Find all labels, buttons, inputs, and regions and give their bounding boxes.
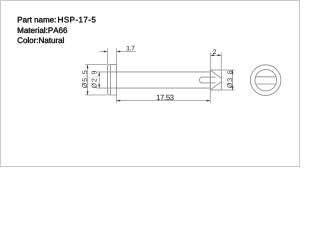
- arrow dim 17.53 left, points left: [117, 100, 121, 102]
- arrow dim 3.6 top, points up: [232, 70, 234, 74]
- arrow dim 2 right, points right: [218, 54, 222, 56]
- label dia 5.5: [82, 71, 87, 88]
- title: material: [18, 27, 67, 33]
- tip expansion slot: [199, 77, 215, 83]
- ext line tip front upward (dim 2): [220, 53, 222, 71]
- tip front face: [220, 70, 222, 90]
- ext line head left face (dim 1.7): [107, 49, 109, 64]
- ext line head top left (dim 5.5): [85, 64, 107, 66]
- dim 17.53 line: [117, 100, 211, 102]
- arrowheads: [87, 51, 234, 102]
- extension and dimension lines: [85, 49, 234, 103]
- dim 2 line: [210, 54, 221, 56]
- pin shaft top line: [117, 71, 211, 73]
- ext line shaft bottom left, crosses head (dim 2.9): [97, 87, 116, 89]
- pin shaft bottom line: [117, 87, 211, 89]
- barb bottom line: [210, 89, 221, 91]
- end view slot upper edge: [256, 76, 277, 78]
- ext line barb bottom right (dim 3.6): [221, 89, 234, 91]
- pin head flange outline: [108, 65, 117, 95]
- dim 1.7 right leader under label: [120, 51, 136, 53]
- ext line barb shoulder (dims 2 and 17.53): [209, 53, 211, 103]
- end view: [250, 65, 281, 96]
- ext line head bottom left (dim 5.5): [85, 94, 107, 96]
- arrow dim 1.7 left, points right: [104, 51, 108, 53]
- barb lower cone edge: [210, 82, 221, 90]
- arrow dim 17.53 right, points right: [207, 100, 211, 102]
- label dia 2.9: [91, 71, 96, 88]
- barb upper cone edge: [210, 70, 221, 78]
- end view outer circle (flange dia): [250, 65, 281, 96]
- dim 2.9 line: [98, 72, 100, 88]
- ext line barb top right (dim 3.6): [221, 69, 234, 71]
- border frame: [1, 1, 300, 167]
- barb shoulder step: [209, 70, 211, 90]
- arrow dim 2.9 top, points up: [98, 72, 100, 76]
- dim 3.6 line: [232, 70, 234, 90]
- title: color: [18, 37, 64, 43]
- ext line head right face downward (dim 17.53): [116, 95, 118, 103]
- pin head dome tangent line: [109, 65, 111, 95]
- title: part name: [18, 17, 56, 23]
- ext line shaft top left, crosses head (dim 2.9): [97, 71, 116, 73]
- label dia 3.6: [227, 71, 232, 88]
- arrow dim 1.7 right, points left: [117, 51, 121, 53]
- arrow dim 5.5 top, points up: [87, 65, 89, 69]
- arrow dim 2.9 bottom, points down: [98, 84, 100, 88]
- arrow dim 2 left, points left: [210, 54, 214, 56]
- end view inner circle (barb dia): [255, 69, 277, 91]
- dim 5.5 line: [87, 65, 89, 95]
- label 17.53: [157, 95, 174, 100]
- label 1.7: [127, 46, 135, 50]
- end view slot lower edge: [256, 83, 276, 85]
- dim 1.7 left arrow tail: [99, 51, 104, 53]
- arrow dim 3.6 bottom, points down: [232, 86, 234, 90]
- ext line head right face upward (dim 1.7): [116, 49, 118, 64]
- barb top line: [210, 69, 221, 71]
- label 2: [213, 49, 216, 54]
- arrow dim 5.5 bottom, points down: [87, 91, 89, 95]
